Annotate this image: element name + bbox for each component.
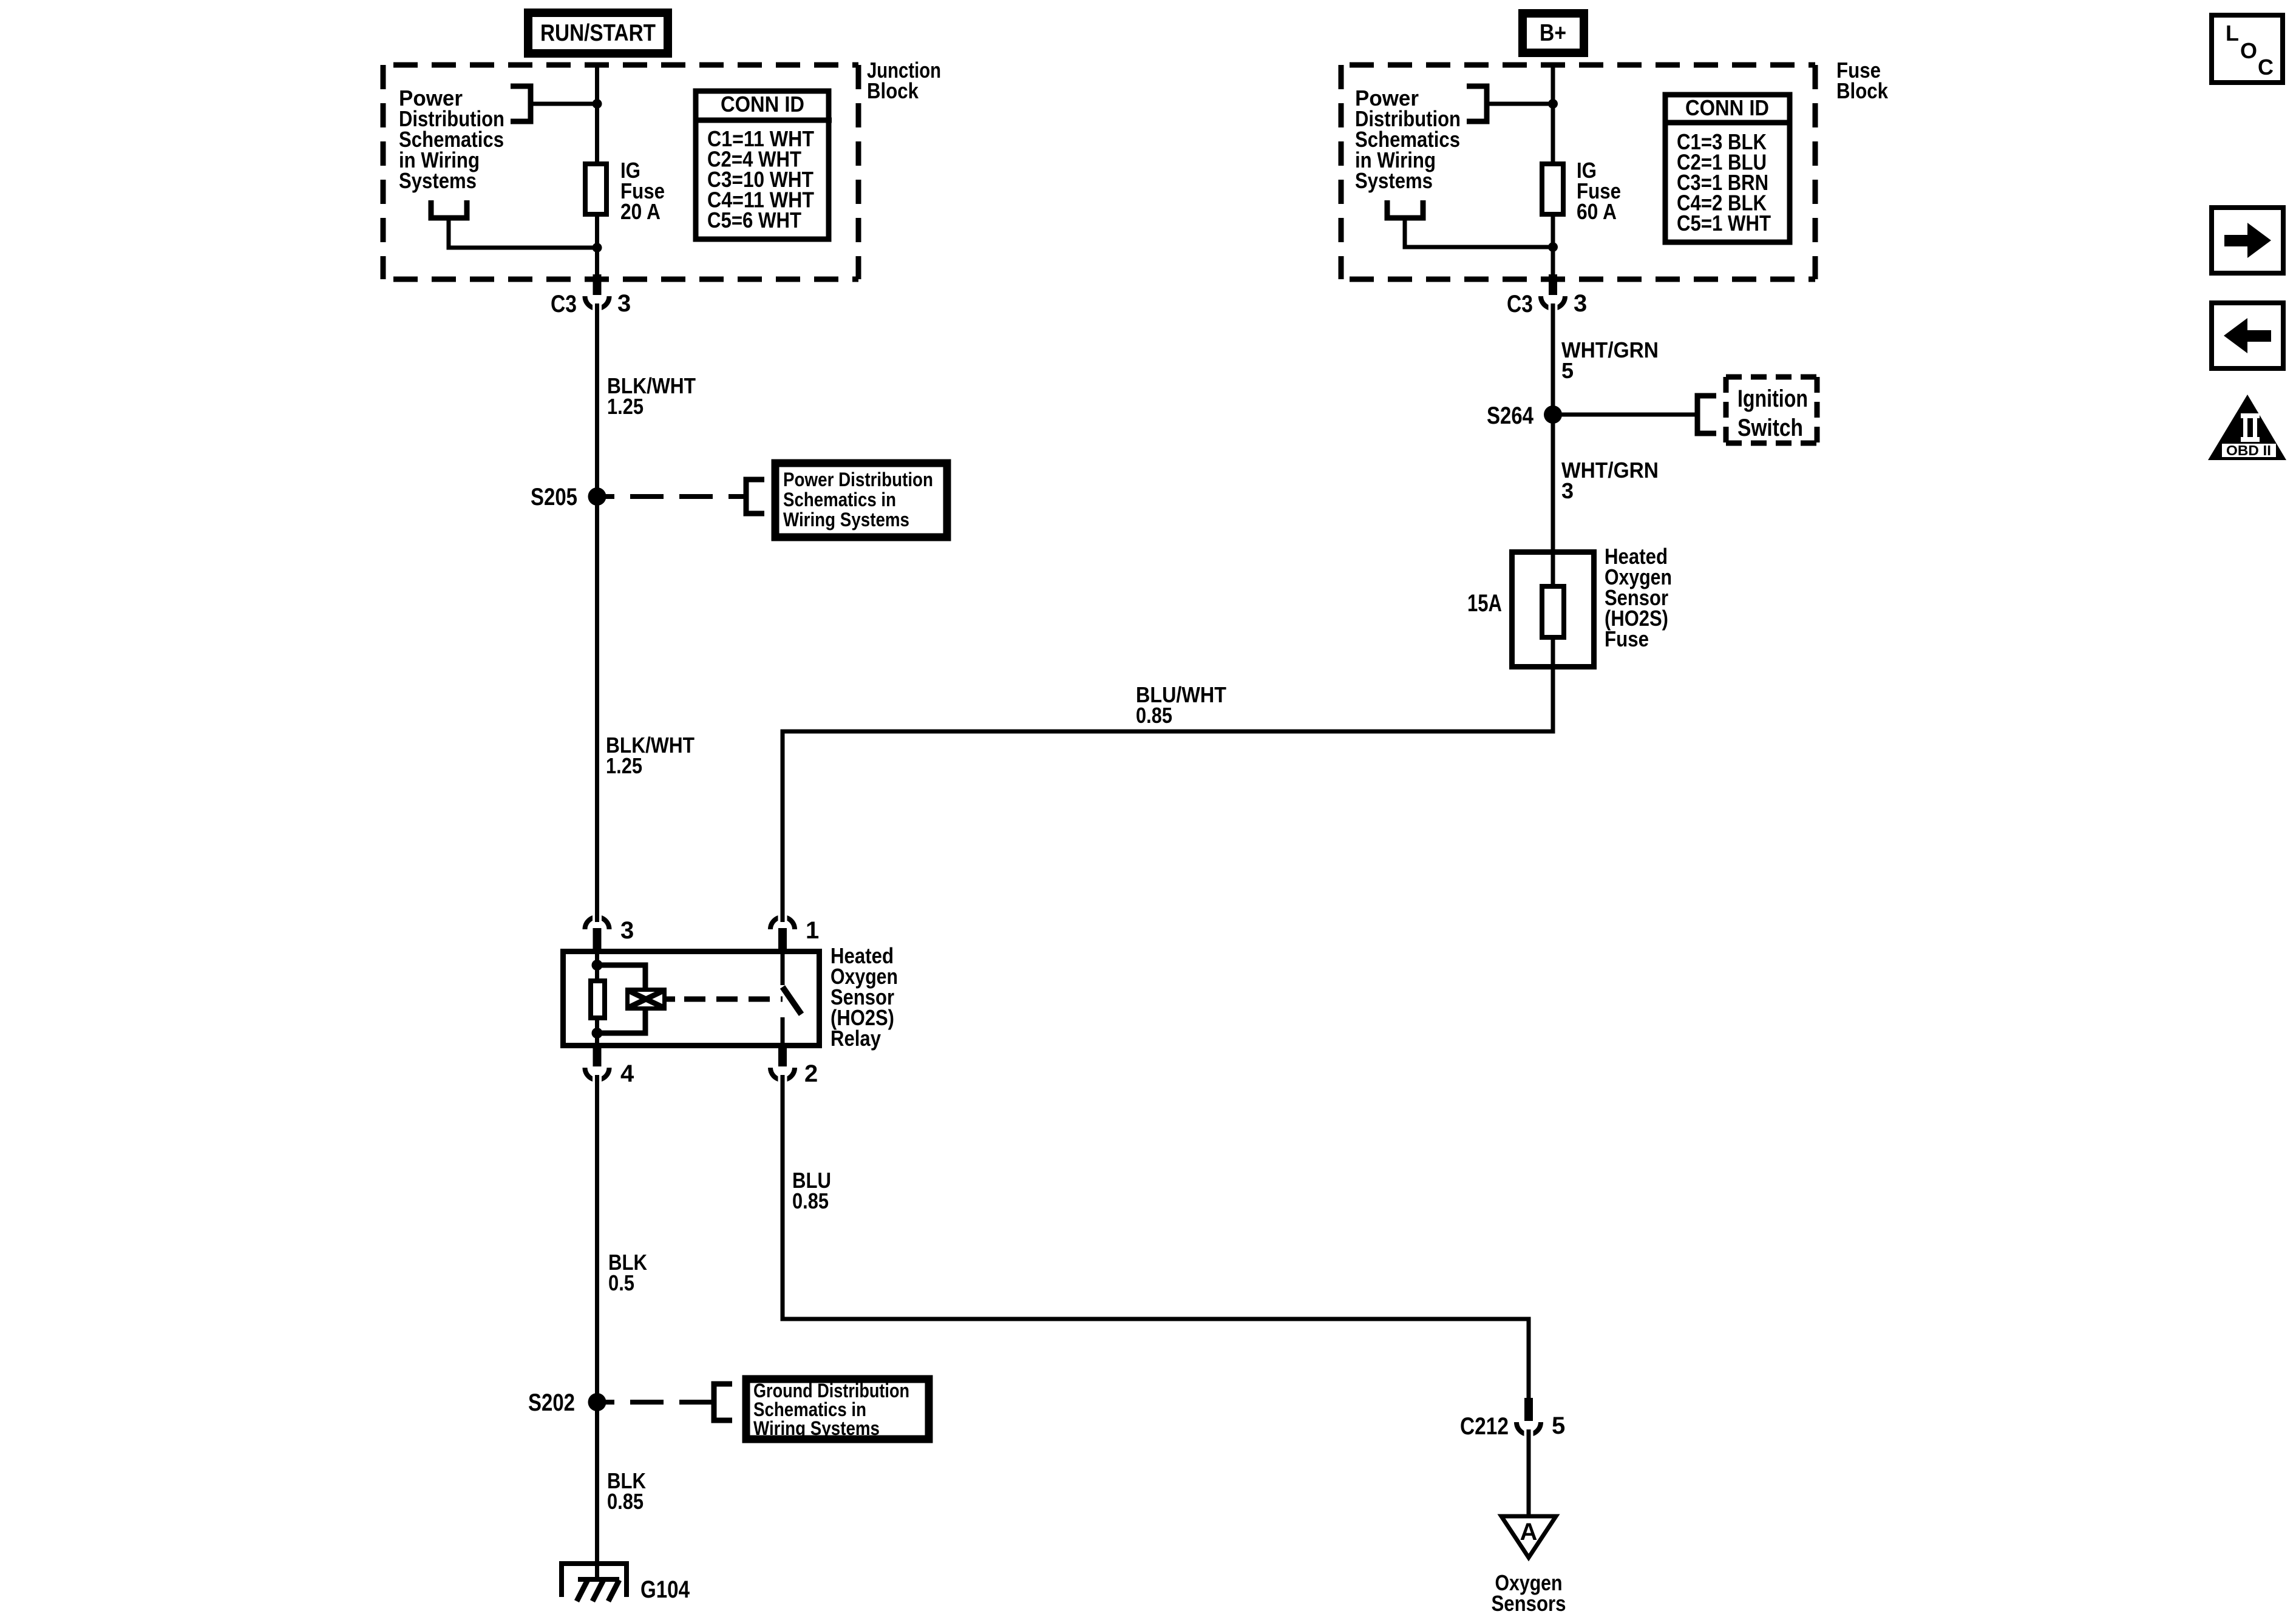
svg-text:3: 3 [1574,290,1587,317]
relay K: Heated Oxygen Sensor (HO2S) Relay (outline) [563,952,820,1046]
svg-text:S264: S264 [1487,402,1534,429]
wire: BLK/WHT 1.25 (S205 to relay pin 3) [595,497,599,922]
power feed label B+ [1523,13,1584,53]
svg-text:OxygenSensors: OxygenSensors [1492,1570,1566,1616]
relay internal: coil (box with X) [628,990,665,1009]
icon: OBD II (emissions triangle) [2208,395,2286,460]
relay internal: switch fixed contact (pin 1 side) [781,954,785,985]
ground G104 [562,1564,627,1601]
svg-text:C3: C3 [551,291,577,317]
fuse block (dashed outline) [1341,65,1815,279]
wire: bracket to upper splice (fuse block) [1487,102,1553,106]
splice S264 [1544,405,1562,424]
fuse: IG Fuse 60 A [1542,164,1563,214]
svg-text:OBD II: OBD II [2226,442,2271,458]
connector ID table (fuse block) [1663,95,1792,242]
svg-text:S205: S205 [531,484,577,510]
splice S205 [588,487,606,506]
reference box: Ground Distribution Schematics in Wiring Systems [746,1379,929,1439]
fuse holder: Heated Oxygen Sensor (HO2S) Fuse (outline) [1512,552,1594,667]
icon: arrow right (next page) [2212,208,2283,273]
svg-text:C3: C3 [1507,291,1533,317]
wire: RUN/START feed into junction block (vertical) [595,63,599,276]
wire: B+ feed into fuse block (vertical) [1551,63,1555,276]
svg-text:1: 1 [806,917,819,944]
svg-text:2: 2 [804,1060,818,1087]
relay internal: coil output tab [667,997,675,1002]
node: splice in fuse block (upper) [1548,99,1558,109]
wire: C212 to oxygen sensors reference [1527,1429,1531,1516]
bracket: ignition switch input [1697,396,1716,433]
connector C212 pin 5 [1517,1398,1541,1439]
svg-text:G104: G104 [640,1576,690,1603]
power symbol: feed tab (junction block lower-left) [431,200,467,218]
wire: WHT/GRN 5 (C3 to S264) [1551,303,1555,415]
svg-text:O: O [2240,38,2257,63]
svg-text:BLK0.85: BLK0.85 [607,1468,646,1514]
power feed label RUN/START [528,13,668,53]
svg-text:C1=11 WHTC2=4 WHTC3=10 WHTC4=1: C1=11 WHTC2=4 WHTC3=10 WHTC4=11 WHTC5=6 … [707,126,814,232]
wire: bracket to upper splice [531,102,597,106]
connector: relay pin 2 [770,1046,795,1085]
svg-text:S202: S202 [528,1389,575,1416]
bracket: power distribution schematics reference (junction block) [511,86,531,121]
fuse: IG Fuse 20 A [585,164,606,214]
connector: relay pin 3 [585,912,610,954]
svg-text:CONN ID: CONN ID [1685,95,1769,120]
wire: BLU/WHT 0.85 (HO2S fuse to relay pin 1) [783,637,1553,922]
node: splice in junction block (upper) [593,99,602,109]
bracket: reference into box (S205) [746,480,764,514]
icon: LOC (location reference) [2212,15,2283,83]
svg-text:B+: B+ [1540,20,1566,46]
svg-text:4: 4 [620,1060,634,1087]
component: Ignition Switch (dashed box) [1726,377,1817,443]
wire: BLU 0.85 (relay pin 2 to C212) [783,1075,1529,1399]
wire: WHT/GRN 3 (S264 to HO2S fuse) [1551,415,1555,584]
wire: feed tab to lower splice (fuse block) [1405,220,1553,247]
svg-text:C212: C212 [1460,1413,1509,1440]
dashed reference link from S205 [605,494,744,499]
power symbol: feed tab (fuse block lower-left) [1387,200,1423,218]
svg-text:15A: 15A [1467,590,1502,617]
svg-text:A: A [1520,1519,1538,1545]
splice S202 [588,1393,606,1411]
wire: S264 to ignition switch [1553,413,1695,417]
off-page reference A (triangle) [1501,1516,1556,1558]
relay internal: coil loop wires [597,965,646,988]
relay internal: wire resistor to bottom node [595,1020,599,1046]
svg-text:C: C [2258,55,2274,80]
node: splice in fuse block (lower) [1548,242,1558,252]
node: splice in junction block (lower) [593,243,602,253]
icon: arrow left (previous page) [2212,303,2283,368]
svg-text:CONN ID: CONN ID [721,92,804,117]
reference box: Power Distribution Schematics in Wiring Systems [775,463,947,537]
connector C3 pin 3 (fuse block to harness) [1541,274,1565,313]
relay internal: node bottom [592,1028,603,1039]
svg-text:C1=3 BLKC2=1 BLUC3=1 BRNC4=2 B: C1=3 BLKC2=1 BLUC3=1 BRNC4=2 BLKC5=1 WHT [1677,129,1771,236]
svg-text:5: 5 [1552,1412,1565,1439]
connector ID table (junction block) [693,91,832,239]
svg-text:FuseBlock: FuseBlock [1836,58,1889,103]
wire: feed tab to lower splice [449,220,597,248]
svg-text:3: 3 [617,290,631,317]
connector C3 pin 3 (junction block to harness) [585,274,610,313]
wire: BLK 0.85 (S202 to G104) [595,1402,599,1579]
bracket: power distribution schematics reference (fuse block) [1467,86,1487,121]
wire: BLK 0.5 (relay pin 4 to S202) [595,1075,599,1402]
fuse: HO2S 15 A [1542,586,1564,637]
svg-text:3: 3 [620,917,634,944]
relay internal: switch blade [783,987,801,1014]
relay internal: wire pin3 into coil circuit [595,954,599,981]
relay internal: resistor [591,981,605,1018]
svg-text:BLU0.85: BLU0.85 [792,1168,831,1213]
dashed reference link from S202 [605,1400,712,1405]
svg-text:RUN/START: RUN/START [540,20,656,46]
svg-text:L: L [2226,21,2239,46]
wire: BLK/WHT 1.25 (C3 to S205) [595,303,599,497]
relay internal: dashed actuating link [684,997,783,1002]
junction block (dashed outline) [383,65,858,279]
connector: relay pin 4 [585,1046,610,1085]
relay internal: switch lower contact [781,1017,785,1046]
bracket: reference into box (S202) [714,1384,732,1420]
connector: relay pin 1 [770,912,795,954]
relay internal: node top [592,960,603,971]
